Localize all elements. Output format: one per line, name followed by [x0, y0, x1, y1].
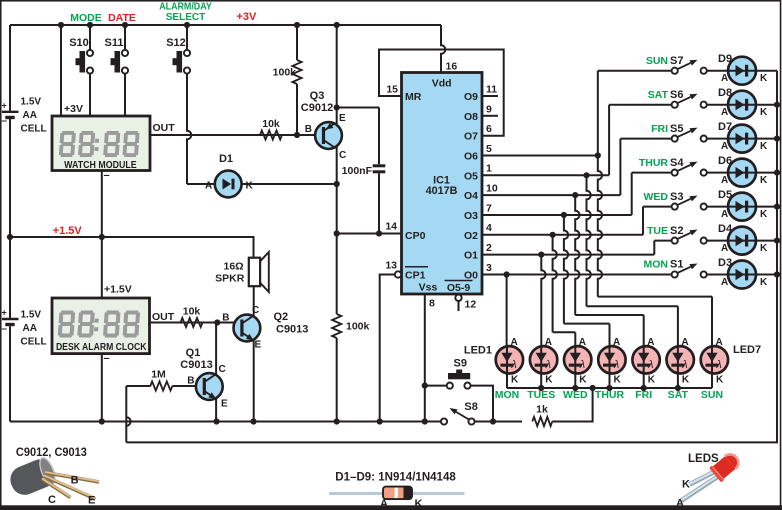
svg-text:B: B — [187, 376, 194, 387]
svg-text:–: – — [2, 324, 8, 335]
svg-text:D5: D5 — [718, 189, 732, 201]
svg-text:+: + — [2, 101, 7, 111]
wire O1 drop to LED2 — [541, 255, 545, 347]
wire +3V to watch module — [60, 25, 62, 116]
svg-text:1.5V: 1.5V — [21, 97, 42, 108]
svg-text:1k: 1k — [536, 404, 548, 416]
switch S5 — [672, 128, 707, 142]
svg-text:A: A — [721, 107, 728, 118]
svg-text:–: – — [2, 116, 8, 127]
svg-text:4017B: 4017B — [426, 185, 458, 197]
svg-text:TUE: TUE — [647, 225, 668, 237]
svg-text:ALARM/DAY: ALARM/DAY — [159, 1, 212, 12]
led LED3 WED — [563, 337, 591, 401]
wire riser to switch row 2 — [620, 139, 671, 196]
switch S2 — [672, 230, 707, 244]
svg-text:100k: 100k — [346, 321, 370, 333]
svg-text:K: K — [415, 498, 423, 510]
label S5 — [651, 123, 683, 135]
svg-text:A: A — [721, 209, 728, 220]
wire riser to switch row 1 — [609, 105, 672, 176]
led LED7 SUN — [701, 337, 728, 401]
watch module — [52, 116, 150, 171]
legend package pins — [48, 475, 95, 507]
svg-text:K: K — [614, 375, 622, 386]
legend label C9012 C9013 — [16, 445, 87, 459]
svg-text:S7: S7 — [670, 55, 683, 67]
resistor 100k (CP0) — [332, 314, 369, 338]
label S6 — [648, 89, 684, 101]
wire S1 to D3 — [707, 274, 728, 276]
svg-text:WATCH MODULE: WATCH MODULE — [64, 160, 137, 171]
wire O0 drop to LED1 — [506, 275, 508, 347]
speaker 16ohm — [249, 252, 269, 292]
svg-text:A: A — [721, 141, 728, 152]
svg-text:λ: λ — [681, 359, 687, 371]
svg-text:9: 9 — [486, 103, 492, 115]
label S1 — [644, 259, 684, 271]
pin 9 stub — [482, 103, 498, 116]
switch S12 pushbutton — [166, 37, 190, 74]
svg-text:DATE: DATE — [108, 12, 136, 24]
wire LED cathode bus — [507, 385, 712, 391]
switch S4 — [672, 162, 707, 176]
svg-text:Vdd: Vdd — [432, 78, 452, 90]
label Q2 pins — [222, 305, 261, 351]
svg-text:SPKR: SPKR — [215, 272, 245, 284]
label +3V module — [64, 103, 83, 115]
led LED4 THUR — [595, 337, 626, 401]
svg-text:13: 13 — [385, 259, 397, 271]
wire desk OUT line — [150, 319, 234, 325]
switch S8 — [441, 401, 478, 425]
svg-text:C9013: C9013 — [180, 359, 212, 371]
svg-text:CELL: CELL — [21, 124, 47, 135]
svg-text:A: A — [676, 497, 684, 509]
svg-text:S4: S4 — [670, 157, 684, 169]
label D8 — [718, 87, 768, 118]
svg-text:S1: S1 — [670, 259, 683, 271]
wire desk module minus — [99, 353, 110, 425]
wire output O6 line — [482, 143, 601, 159]
label DATE — [108, 12, 136, 24]
svg-text:3: 3 — [486, 262, 492, 274]
svg-text:10k: 10k — [262, 118, 280, 130]
svg-text:CP0: CP0 — [405, 230, 426, 242]
svg-text:7: 7 — [486, 202, 492, 214]
legend diode drawing — [329, 486, 465, 510]
diode D4 1N4148 — [728, 227, 777, 255]
label LED1 — [464, 345, 492, 357]
svg-text:K: K — [760, 175, 768, 186]
svg-text:D8: D8 — [718, 87, 732, 99]
svg-text:A: A — [647, 337, 654, 348]
svg-text:E: E — [339, 113, 346, 124]
wire riser to switch row 3 — [632, 173, 672, 215]
svg-text:SELECT: SELECT — [166, 12, 205, 23]
svg-text:D3: D3 — [718, 257, 732, 269]
svg-text:S5: S5 — [670, 123, 683, 135]
resistor R 1M — [150, 369, 196, 391]
svg-text:λ: λ — [545, 359, 551, 371]
svg-text:O4: O4 — [464, 190, 478, 202]
svg-text:K: K — [716, 375, 724, 386]
svg-text:4: 4 — [486, 222, 492, 234]
svg-text:C9012: C9012 — [301, 102, 333, 114]
svg-text:THUR: THUR — [639, 157, 669, 169]
label Q3 — [301, 90, 333, 114]
wire riser to switch row 5 — [654, 241, 671, 255]
led LED1 MON — [495, 337, 523, 401]
label ALARM/DAY SELECT — [159, 1, 212, 23]
svg-text:OUT: OUT — [153, 122, 176, 134]
svg-text:+1.5V: +1.5V — [53, 225, 83, 237]
capacitor C 100nF — [342, 164, 386, 177]
label MODE — [70, 12, 102, 24]
wire output O0 line — [482, 262, 672, 278]
svg-text:Q3: Q3 — [310, 90, 325, 102]
svg-text:O8: O8 — [464, 111, 478, 123]
switch S9 pushbutton — [447, 358, 471, 389]
svg-text:K: K — [760, 141, 768, 152]
svg-text:O5: O5 — [464, 170, 478, 182]
label S7 — [646, 55, 684, 67]
label LED7 — [733, 344, 761, 356]
diode D6 1N4148 — [728, 159, 777, 187]
wire watch OUT line — [150, 132, 316, 138]
svg-text:K: K — [682, 375, 690, 386]
svg-text:A: A — [721, 243, 728, 254]
svg-text:A: A — [613, 337, 620, 348]
label +1.5V rail — [53, 225, 83, 237]
wire Q3 collector down — [334, 147, 340, 425]
legend LED drawing — [676, 450, 743, 509]
transistor Q1 C9013 — [196, 373, 223, 400]
svg-text:K: K — [760, 73, 768, 84]
wire O6 drop to LED7 — [598, 156, 712, 347]
label +3V rail — [237, 11, 258, 23]
resistor 10k (watch) — [260, 118, 282, 140]
svg-text:MR: MR — [405, 91, 422, 103]
switch S11 pushbutton — [105, 37, 129, 74]
svg-text:WED: WED — [644, 191, 669, 203]
svg-text:AA: AA — [23, 110, 37, 121]
svg-text:K: K — [648, 375, 656, 386]
svg-text:D6: D6 — [718, 155, 732, 167]
svg-text:1: 1 — [486, 163, 492, 175]
svg-text:LEDS: LEDS — [688, 453, 719, 465]
svg-text:+: + — [2, 308, 7, 318]
svg-text:C: C — [339, 150, 346, 161]
svg-text:K: K — [545, 375, 553, 386]
desk alarm clock module — [52, 298, 150, 354]
label pin15 — [386, 84, 398, 96]
svg-text:+3V: +3V — [64, 103, 83, 115]
svg-text:A: A — [380, 498, 388, 510]
diode D8 1N4148 — [728, 91, 777, 119]
label S4 — [639, 157, 685, 169]
svg-text:CP1: CP1 — [405, 269, 426, 281]
svg-text:SUN: SUN — [701, 389, 723, 401]
wire S10 top — [89, 25, 91, 50]
wire S9 left — [425, 385, 447, 387]
label D6 — [718, 155, 768, 186]
label OUT desk — [152, 311, 175, 323]
svg-text:1M: 1M — [151, 369, 166, 381]
svg-text:D7: D7 — [718, 121, 732, 133]
svg-text:MODE: MODE — [70, 12, 102, 24]
wire cap top branch — [337, 108, 379, 165]
switch S7 — [672, 60, 707, 74]
svg-text:C: C — [48, 494, 56, 506]
switch S10 pushbutton — [69, 37, 93, 74]
svg-text:E: E — [255, 340, 262, 351]
diode D1 1N4148 — [215, 171, 337, 198]
wire S9 right — [471, 386, 493, 422]
wire Vdd pin16 — [441, 25, 457, 73]
resistor R 1k — [475, 388, 593, 426]
label D3 — [718, 257, 768, 288]
wire ground rail — [10, 418, 496, 424]
label Q2 — [274, 311, 309, 336]
wire S10 to watch module — [89, 74, 91, 116]
svg-text:FRI: FRI — [651, 123, 668, 135]
svg-text:+3V: +3V — [237, 11, 258, 23]
wire Q1 emitter to ground — [215, 399, 217, 422]
svg-text:A: A — [716, 337, 723, 348]
label IC outputs — [464, 91, 478, 282]
resistor 10k (desk) — [181, 306, 203, 328]
svg-text:MON: MON — [644, 259, 669, 271]
pin 13 CP1 bubble — [385, 259, 401, 277]
svg-text:K: K — [760, 277, 768, 288]
svg-text:DESK ALARM CLOCK: DESK ALARM CLOCK — [56, 342, 147, 353]
switch S6 — [672, 94, 707, 108]
svg-text:K: K — [760, 209, 768, 220]
wire S11 top — [124, 25, 126, 50]
svg-text:A: A — [721, 277, 728, 288]
battery B1 1.5V AA cell — [2, 101, 19, 127]
svg-text:K: K — [682, 479, 690, 491]
wire S2 to D4 — [707, 240, 728, 242]
wire left supply — [7, 25, 13, 422]
switch S3 — [672, 196, 707, 210]
resistor 100k (pullup) — [273, 25, 302, 135]
svg-text:12: 12 — [465, 299, 477, 311]
switch S1 — [672, 264, 707, 278]
svg-text:O0: O0 — [464, 270, 478, 282]
svg-text:CELL: CELL — [21, 337, 47, 348]
svg-text:B: B — [71, 475, 79, 487]
wire +1.5V rail — [10, 234, 254, 257]
svg-text:LED1: LED1 — [464, 345, 492, 357]
svg-text:Vss: Vss — [419, 282, 438, 294]
wire S12 top — [186, 25, 188, 50]
svg-text:5: 5 — [486, 143, 492, 155]
label D9 — [718, 53, 768, 84]
svg-text:2: 2 — [486, 242, 492, 254]
wire Q1 collector up — [215, 323, 217, 375]
svg-text:S6: S6 — [670, 89, 683, 101]
svg-text:–: – — [104, 353, 110, 365]
svg-text:A: A — [721, 175, 728, 186]
svg-text:Q1: Q1 — [186, 347, 201, 359]
wire Q3 emitter to +3V — [334, 25, 340, 125]
svg-text:E: E — [88, 495, 95, 507]
wire watch module minus — [102, 170, 110, 238]
diode D5 1N4148 — [728, 193, 777, 221]
svg-text:10k: 10k — [183, 306, 201, 318]
wire output O2 line — [482, 222, 643, 238]
label OUT watch — [153, 122, 176, 134]
wire output O5 line — [482, 163, 609, 179]
label battery B1 — [21, 97, 47, 135]
label 16ohm SPKR — [215, 261, 245, 285]
svg-text:A: A — [545, 337, 552, 348]
svg-text:S10: S10 — [69, 37, 89, 49]
label D1 — [205, 153, 254, 192]
svg-text:16Ω: 16Ω — [223, 261, 243, 273]
label Q1 pins — [187, 364, 228, 410]
svg-text:14: 14 — [385, 221, 397, 233]
diode D3 1N4148 — [728, 261, 777, 289]
svg-text:11: 11 — [486, 84, 497, 96]
wire Vss pin8 — [422, 294, 435, 425]
label S3 — [644, 191, 684, 203]
svg-text:A: A — [205, 181, 212, 192]
svg-text:S8: S8 — [464, 401, 477, 413]
wire S5 to D7 — [707, 138, 728, 140]
wire +3V rail — [10, 22, 441, 28]
svg-text:D9: D9 — [718, 53, 732, 65]
svg-text:+1.5V: +1.5V — [104, 284, 132, 296]
wire output O3 line — [482, 202, 632, 218]
label S2 — [647, 225, 683, 237]
label pin14 — [337, 221, 402, 234]
svg-text:MON: MON — [495, 389, 520, 401]
svg-text:K: K — [579, 375, 587, 386]
svg-text:B: B — [222, 313, 229, 324]
svg-text:–: – — [104, 170, 110, 182]
wire O4 drop to LED5 — [575, 195, 644, 346]
wire output O4 line — [482, 183, 620, 199]
svg-text:A: A — [579, 337, 586, 348]
svg-text:Q2: Q2 — [274, 311, 289, 323]
svg-text:O1: O1 — [464, 250, 478, 262]
svg-text:K: K — [246, 181, 254, 192]
legend label LEDS — [688, 453, 719, 465]
svg-text:λ: λ — [613, 359, 619, 371]
wire S12 to D1 anode — [187, 74, 215, 184]
svg-text:6: 6 — [486, 123, 492, 135]
svg-text:λ: λ — [510, 359, 516, 371]
wire diode cathode bus — [126, 71, 780, 443]
label battery B2 — [21, 310, 47, 348]
svg-text:10: 10 — [486, 183, 498, 195]
svg-text:K: K — [760, 243, 768, 254]
svg-text:O9: O9 — [464, 91, 478, 103]
transistor Q3 C9012 — [315, 122, 342, 149]
wire +1.5V to desk module — [101, 237, 103, 298]
svg-text:λ: λ — [579, 359, 585, 371]
led LED2 TUES — [527, 337, 557, 401]
svg-text:λ: λ — [715, 359, 721, 371]
wire return to 1M — [126, 386, 150, 442]
wire MR to O7 (pin15-pin6) — [379, 50, 504, 136]
svg-text:D1: D1 — [219, 153, 233, 165]
svg-text:S9: S9 — [454, 358, 467, 370]
svg-text:S12: S12 — [166, 37, 186, 49]
svg-text:8: 8 — [429, 298, 435, 310]
wire S11 to watch module — [124, 74, 126, 116]
svg-text:15: 15 — [386, 84, 398, 96]
svg-text:K: K — [511, 375, 519, 386]
svg-text:100nF: 100nF — [342, 165, 373, 177]
legend label diodes — [335, 469, 456, 483]
svg-text:O6: O6 — [464, 151, 478, 163]
label Q1 — [180, 347, 212, 371]
svg-text:B: B — [305, 124, 312, 135]
svg-text:AA: AA — [23, 323, 37, 334]
diode D7 1N4148 — [728, 125, 777, 153]
svg-text:S3: S3 — [670, 191, 683, 203]
svg-text:A: A — [721, 73, 728, 84]
label D7 — [718, 121, 768, 152]
svg-text:E: E — [221, 399, 228, 410]
svg-text:O2: O2 — [464, 230, 478, 242]
label D5 — [718, 189, 768, 220]
svg-text:K: K — [760, 107, 768, 118]
svg-text:A: A — [681, 337, 688, 348]
label D4 — [718, 223, 768, 254]
svg-text:SUN: SUN — [646, 55, 668, 67]
wire Q2 collector to speaker — [253, 286, 255, 315]
svg-text:D1–D9: 1N914/1N4148: D1–D9: 1N914/1N4148 — [335, 469, 456, 483]
wire S7 to D9 — [707, 70, 728, 72]
wire S3 to D5 — [707, 206, 728, 208]
wire cap bottom to CP0 — [376, 173, 382, 236]
wire S4 to D6 — [707, 172, 728, 174]
label Q3 pins — [305, 113, 346, 161]
svg-text:O5-9: O5-9 — [447, 282, 471, 294]
svg-text:100k: 100k — [273, 67, 297, 79]
svg-text:D4: D4 — [718, 223, 733, 235]
pin 12 stub — [455, 295, 476, 311]
label pin6 — [486, 123, 492, 135]
transistor Q2 C9013 — [234, 315, 261, 342]
wire output O1 line — [482, 242, 654, 258]
svg-text:C9013: C9013 — [276, 324, 308, 336]
led LED5 FRI — [632, 337, 659, 401]
wire O2 drop to LED3 — [553, 235, 576, 346]
svg-text:A: A — [511, 337, 518, 348]
svg-text:O7: O7 — [464, 131, 478, 143]
svg-text:LED7: LED7 — [733, 344, 761, 356]
svg-text:SAT: SAT — [648, 89, 669, 101]
svg-text:C9012, C9013: C9012, C9013 — [16, 445, 87, 459]
svg-text:16: 16 — [446, 61, 458, 73]
svg-text:1.5V: 1.5V — [21, 310, 42, 321]
svg-text:S2: S2 — [670, 225, 683, 237]
svg-text:OUT: OUT — [152, 311, 175, 323]
wire Q2 emitter to ground — [253, 341, 255, 422]
wire riser to switch row 4 — [643, 207, 672, 235]
wire O5 drop to LED6 — [587, 175, 678, 346]
wire S6 to D8 — [707, 104, 728, 106]
pin 11 stub — [482, 84, 498, 97]
wire riser to switch row 0 — [598, 71, 672, 156]
legend transistor package drawing — [6, 455, 99, 499]
